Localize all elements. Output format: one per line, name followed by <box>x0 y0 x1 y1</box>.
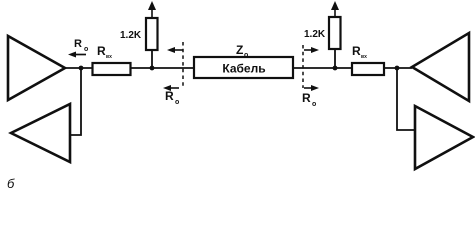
node B (left pull-up junction) <box>150 66 155 71</box>
svg-text:o: o <box>84 46 88 53</box>
power arrow up (right pull-up to supply) <box>331 1 339 17</box>
svg-text:вх: вх <box>106 54 112 60</box>
svg-text:R: R <box>97 44 106 58</box>
svg-text:o: o <box>175 99 179 106</box>
power arrow up (left pull-up to supply) <box>148 1 156 18</box>
node D (junction at right driver output) <box>395 66 400 71</box>
label R4 value "R" with subscript <box>352 44 367 60</box>
label R1 value "R" with subscript <box>97 44 112 60</box>
driver U1 (top-left buffer) <box>8 36 65 100</box>
measurement plane (left, dashed) <box>182 42 184 86</box>
arrow left (bottom) <box>163 85 179 91</box>
arrow right (bottom) <box>304 85 319 91</box>
wire: right pull-up to main line <box>334 49 336 68</box>
wire: node A down to receiver U2 input <box>71 68 81 135</box>
node A (junction at left driver output) <box>79 66 84 71</box>
label 1.2K (left) <box>120 30 142 41</box>
svg-text:1.2K: 1.2K <box>120 30 142 41</box>
svg-text:б: б <box>7 176 15 191</box>
resistor R2 1.2K pull-up (left) <box>146 18 158 50</box>
label R_o (right measurement) <box>302 91 316 108</box>
svg-text:R: R <box>352 44 361 58</box>
svg-text:R: R <box>165 89 174 103</box>
wire: U1 apex to cable box left <box>65 67 194 69</box>
resistor R1 (series R, left) <box>93 63 131 75</box>
cable (Кабель) box <box>194 57 293 78</box>
svg-text:Кабель: Кабель <box>222 62 265 76</box>
arrow right (top) <box>304 47 319 53</box>
receiver U4 (bottom-right buffer, pointing right) <box>415 106 473 169</box>
label Z_o (cable impedance) <box>236 43 248 59</box>
label 1.2K (right) <box>304 29 326 40</box>
svg-text:R: R <box>302 91 311 105</box>
arrow left under R_o label <box>68 52 86 58</box>
svg-text:вх: вх <box>361 54 367 60</box>
wire: node D down to receiver U4 input <box>397 68 416 130</box>
label R_o with arrow (output impedance at left driver) <box>74 38 88 53</box>
node C (right pull-up junction) <box>333 66 338 71</box>
label R_o (left measurement) <box>165 89 179 106</box>
resistor R4 (series R, right) <box>352 63 384 75</box>
svg-text:R: R <box>74 38 82 50</box>
svg-text:1.2K: 1.2K <box>304 29 326 40</box>
wire: left pull-up to main line <box>151 50 153 68</box>
measurement plane (right, dashed) <box>302 45 304 88</box>
svg-text:o: o <box>312 101 316 108</box>
arrow left (looking toward source, top) <box>167 47 183 53</box>
resistor R3 1.2K pull-up (right) <box>329 17 341 49</box>
figure label б <box>7 176 15 191</box>
svg-text:Z: Z <box>236 43 243 57</box>
svg-text:o: o <box>244 52 248 59</box>
wire: cable box right to right apex <box>293 67 412 69</box>
driver U3 (top-right buffer, pointing left) <box>412 33 469 101</box>
receiver U2 (bottom-left buffer, pointing left) <box>11 104 70 162</box>
